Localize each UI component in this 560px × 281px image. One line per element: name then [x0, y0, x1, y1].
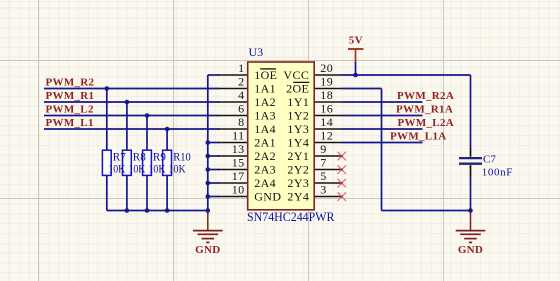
pin number 7 [320, 156, 326, 170]
wire PWM_L1A from pin 12 [342, 142, 423, 144]
wire pin 15 stub [208, 169, 219, 171]
svg-text:8: 8 [238, 115, 244, 129]
pin 1 lead [218, 74, 248, 76]
svg-text:12: 12 [320, 129, 333, 143]
pin 7 lead [314, 169, 342, 171]
pin 6 lead [218, 115, 248, 117]
svg-text:2Y3: 2Y3 [287, 176, 309, 190]
svg-text:2A2: 2A2 [254, 149, 276, 163]
ground right [456, 211, 486, 257]
svg-text:4: 4 [238, 88, 244, 102]
wire PWM_R2A from pin 18 [342, 101, 423, 103]
svg-text:19: 19 [320, 75, 333, 89]
IC U3 designator [249, 45, 264, 59]
svg-text:5: 5 [320, 169, 326, 183]
pin 3 lead [314, 196, 342, 198]
svg-text:10: 10 [232, 183, 245, 197]
junction dot PWM_L2/R9 [145, 113, 150, 118]
svg-text:2Y4: 2Y4 [287, 190, 309, 204]
wire ground bus vertical [207, 75, 209, 211]
wire PWM_L2A from pin 14 [342, 128, 423, 130]
power symbol 5V [348, 35, 364, 62]
svg-text:2Y1: 2Y1 [287, 149, 309, 163]
svg-text:16: 16 [320, 102, 333, 116]
junction dot pin 17 [206, 181, 211, 186]
svg-text:PWM_R1A: PWM_R1A [396, 103, 453, 115]
pin 17 lead [218, 182, 248, 184]
pin name 1A2 [254, 95, 276, 109]
pin name 1Y3 [287, 122, 309, 136]
wire PWM_L1 to pin 8 [44, 128, 219, 130]
pin 15 lead [218, 169, 248, 171]
net label PWM_R2A [397, 90, 454, 102]
pin 10 lead [218, 196, 248, 198]
net label PWM_L2 [46, 103, 94, 115]
pin number 14 [320, 115, 333, 129]
pin name 2Y4 [287, 190, 309, 204]
wire pin 13 stub [208, 155, 219, 157]
wire R10 bottom [166, 175, 168, 211]
resistor R7 labels [108, 152, 126, 176]
pin 13 lead [218, 155, 248, 157]
svg-text:10K: 10K [169, 163, 187, 175]
svg-text:PWM_R2: PWM_R2 [46, 76, 95, 88]
svg-text:100nF: 100nF [482, 167, 513, 179]
wire R8 top [126, 102, 128, 151]
svg-text:PWM_R1: PWM_R1 [46, 90, 95, 102]
svg-text:20: 20 [320, 61, 333, 75]
resistor R8 labels [128, 152, 146, 176]
svg-text:1A3: 1A3 [254, 109, 276, 123]
pin number 20 [320, 61, 333, 75]
pin number 11 [232, 129, 244, 143]
junction dot PWM_R1/R8 [125, 100, 130, 105]
pin name 1OE with overline [254, 68, 277, 82]
svg-text:R7: R7 [113, 152, 126, 164]
capacitor C7 [459, 154, 513, 179]
svg-text:1OE: 1OE [254, 68, 277, 82]
wire R8 bottom [126, 175, 128, 211]
pin number 4 [238, 88, 244, 102]
pin 8 lead [218, 128, 248, 130]
svg-text:17: 17 [232, 169, 245, 183]
pin number 8 [238, 115, 244, 129]
svg-text:VCC: VCC [283, 68, 309, 82]
svg-text:PWM_L2: PWM_L2 [46, 103, 94, 115]
resistor R7 [102, 150, 111, 175]
svg-text:U3: U3 [249, 45, 264, 59]
pin number 15 [232, 156, 245, 170]
pin name 2Y2 [287, 163, 309, 177]
pin name 2A2 [254, 149, 276, 163]
svg-text:14: 14 [320, 115, 333, 129]
svg-text:GND: GND [458, 244, 483, 256]
wire pin 1 to ground bus [208, 74, 219, 76]
IC U3 part number SN74HC244PWR [247, 209, 335, 224]
pin 19 lead [314, 88, 342, 90]
svg-text:2Y2: 2Y2 [287, 163, 309, 177]
wire resistor ground rail [107, 210, 208, 212]
wire 5V stem lower [355, 61, 357, 75]
svg-text:PWM_R2A: PWM_R2A [397, 90, 454, 102]
pin number 19 [320, 75, 333, 89]
pin number 2 [238, 75, 244, 89]
pin name 1A4 [254, 122, 276, 136]
wire pin 11 stub [208, 142, 219, 144]
net label PWM_R2 [46, 76, 95, 88]
svg-text:11: 11 [232, 129, 244, 143]
svg-text:1A1: 1A1 [254, 82, 276, 96]
resistor R8 [123, 150, 132, 175]
svg-text:GND: GND [254, 190, 281, 204]
net label PWM_L1 [46, 117, 94, 129]
svg-text:1Y2: 1Y2 [287, 109, 309, 123]
svg-text:PWM_L2A: PWM_L2A [398, 117, 454, 129]
no-ERC mark pin 5 [338, 179, 347, 188]
pin 5 lead [314, 182, 342, 184]
pin name 2A3 [254, 163, 276, 177]
pin name 1A3 [254, 109, 276, 123]
junction dot R9 bottom [145, 208, 150, 213]
svg-text:1A2: 1A2 [254, 95, 276, 109]
svg-text:2A4: 2A4 [254, 176, 276, 190]
svg-text:R10: R10 [173, 152, 191, 164]
pin number 16 [320, 102, 333, 116]
svg-text:1A4: 1A4 [254, 122, 276, 136]
no-ERC mark pin 3 [338, 192, 347, 201]
pin 20 lead [314, 74, 342, 76]
svg-text:6: 6 [238, 102, 244, 116]
pin number 13 [232, 142, 245, 156]
wire PWM_L2 to pin 6 [44, 115, 219, 117]
wire pin 19 to ground [342, 88, 382, 90]
resistor R9 [143, 150, 152, 175]
junction dot pin 11 [206, 140, 211, 145]
pin 2 lead [218, 88, 248, 90]
svg-text:1Y3: 1Y3 [287, 122, 309, 136]
pin 11 lead [218, 142, 248, 144]
net label PWM_L2A [398, 117, 454, 129]
pin name 2A1 [254, 136, 276, 150]
svg-text:10K: 10K [108, 163, 126, 175]
svg-text:PWM_L1: PWM_L1 [46, 117, 94, 129]
svg-text:10K: 10K [128, 163, 146, 175]
wire VCC pin 20 to 5V and C7 [342, 74, 471, 76]
pin name 1Y4 [287, 136, 309, 150]
pin number 3 [320, 183, 326, 197]
wire R9 bottom [146, 175, 148, 211]
pin name 1Y2 [287, 109, 309, 123]
wire C7 bottom [470, 165, 472, 211]
wire PWM_R2 to pin 2 [44, 88, 219, 90]
wire R10 top [166, 129, 168, 151]
pin 4 lead [218, 101, 248, 103]
svg-text:7: 7 [320, 156, 326, 170]
pin number 6 [238, 102, 244, 116]
pin 9 lead [314, 155, 342, 157]
svg-text:1Y4: 1Y4 [287, 136, 309, 150]
svg-text:2A3: 2A3 [254, 163, 276, 177]
pin name 2Y3 [287, 176, 309, 190]
pin number 5 [320, 169, 326, 183]
junction dot 5V [353, 73, 358, 78]
svg-text:9: 9 [320, 142, 326, 156]
wire R7 bottom [106, 175, 108, 211]
wire R7 top [106, 89, 108, 151]
net label PWM_L1A [390, 130, 446, 142]
junction dot pin 15 [206, 167, 211, 172]
pin 18 lead [314, 101, 342, 103]
wire pin 10 stub [208, 196, 219, 198]
wire pin 17 stub [208, 182, 219, 184]
pin name 2OE with overline [286, 82, 309, 96]
net label PWM_R1A [396, 103, 453, 115]
pin name VCC [283, 68, 309, 82]
junction dot ground rail left [206, 208, 211, 213]
svg-text:GND: GND [195, 244, 220, 256]
wire PWM_R1A from pin 16 [342, 115, 423, 117]
svg-text:13: 13 [232, 142, 245, 156]
svg-text:15: 15 [232, 156, 245, 170]
pin number 12 [320, 129, 333, 143]
pin name 2Y1 [287, 149, 309, 163]
resistor R10 labels [169, 152, 191, 176]
svg-text:2A1: 2A1 [254, 136, 276, 150]
wire right ground vertical [381, 89, 383, 211]
wire PWM_R1 to pin 4 [44, 101, 219, 103]
svg-text:C7: C7 [483, 154, 496, 166]
pin 12 lead [314, 142, 342, 144]
junction dot pin 10 [206, 194, 211, 199]
svg-text:SN74HC244PWR: SN74HC244PWR [247, 209, 335, 224]
pin number 10 [232, 183, 245, 197]
pin name 1A1 [254, 82, 276, 96]
svg-text:R9: R9 [153, 152, 166, 164]
svg-text:18: 18 [320, 88, 333, 102]
wire R9 top [146, 116, 148, 151]
pin name 2A4 [254, 176, 276, 190]
junction dot PWM_R2/R7 [105, 86, 110, 91]
net label PWM_R1 [46, 90, 95, 102]
wire right ground rail [382, 210, 471, 212]
svg-text:5V: 5V [349, 35, 363, 47]
svg-text:3: 3 [320, 183, 326, 197]
junction dot PWM_L1/R10 [165, 127, 170, 132]
pin number 17 [232, 169, 245, 183]
junction dot ground rail right [468, 208, 473, 213]
svg-text:1Y1: 1Y1 [287, 95, 309, 109]
pin name 1Y1 [287, 95, 309, 109]
svg-text:PWM_L1A: PWM_L1A [390, 130, 446, 142]
pin number 1 [238, 61, 244, 75]
ground left [193, 211, 223, 257]
pin number 9 [320, 142, 326, 156]
pin 14 lead [314, 128, 342, 130]
svg-text:1: 1 [238, 61, 244, 75]
resistor R9 labels [149, 152, 167, 176]
svg-text:R8: R8 [133, 152, 146, 164]
junction dot pin 13 [206, 154, 211, 159]
pin name GND [254, 190, 281, 204]
svg-text:10K: 10K [149, 163, 167, 175]
pin number 18 [320, 88, 333, 102]
svg-text:2: 2 [238, 75, 244, 89]
wire C7 top [470, 75, 472, 157]
IC U3 body [248, 62, 315, 210]
no-ERC mark pin 7 [338, 165, 347, 174]
svg-text:2OE: 2OE [286, 82, 309, 96]
resistor R10 [163, 150, 172, 175]
junction dot R10 bottom [165, 208, 170, 213]
junction dot R8 bottom [125, 208, 130, 213]
no-ERC mark pin 9 [338, 152, 347, 161]
pin 16 lead [314, 115, 342, 117]
